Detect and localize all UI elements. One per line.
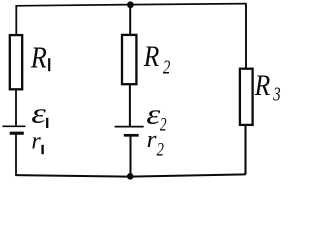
svg-text:r: r [31, 128, 41, 154]
svg-text:3: 3 [272, 82, 280, 105]
svg-text:2: 2 [163, 55, 171, 78]
svg-text:R: R [30, 41, 47, 75]
svg-text:R: R [254, 69, 270, 102]
svg-text:R: R [143, 40, 159, 73]
svg-text:ε: ε [146, 97, 160, 129]
svg-text:ε: ε [31, 97, 47, 129]
svg-text:r: r [147, 127, 157, 153]
svg-text:2: 2 [157, 139, 164, 160]
svg-text:2: 2 [160, 116, 167, 136]
